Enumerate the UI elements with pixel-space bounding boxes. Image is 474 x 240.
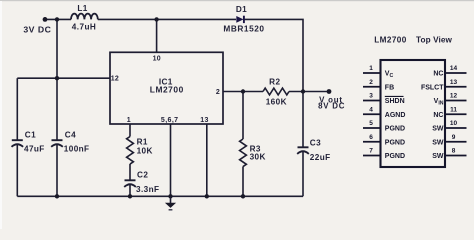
svg-text:R2: R2	[269, 78, 280, 87]
wire: R3 bottom to ground rail	[242, 167, 244, 197]
wire: R3 top from output node	[242, 92, 244, 140]
svg-text:3V DC: 3V DC	[23, 24, 51, 34]
svg-text:SW: SW	[432, 139, 444, 146]
capacitor C2 plates	[124, 180, 136, 187]
wire: input to inductor	[45, 18, 71, 20]
diode D1	[236, 16, 244, 23]
wire: C4 bottom to ground rail	[56, 145, 58, 196]
svg-text:12: 12	[450, 93, 458, 100]
wire: left rail down to C1	[16, 78, 18, 140]
wire: pins 5,6,7 to ground rail	[170, 124, 172, 196]
pin 14 stub	[445, 72, 467, 74]
svg-text:12: 12	[111, 76, 119, 83]
svg-text:3.3nF: 3.3nF	[136, 185, 159, 194]
pinout IC body	[381, 60, 446, 167]
svg-text:7: 7	[369, 148, 373, 155]
ground	[165, 196, 176, 210]
svg-text:NC: NC	[433, 112, 443, 119]
wire: C3 bottom to ground rail	[302, 152, 304, 196]
node: pin12 junction	[55, 76, 59, 80]
wire: pin 13 to ground rail	[206, 124, 208, 196]
wire: pin 10 vertical	[156, 19, 158, 52]
wire: C1 bottom to ground rail	[16, 145, 18, 196]
scan top border	[0, 0, 474, 1]
svg-text:13: 13	[450, 79, 458, 86]
resistor R2	[263, 88, 289, 95]
node: R3 top junction	[241, 89, 245, 93]
wire: R1 to C2	[129, 164, 131, 180]
svg-text:10: 10	[450, 120, 458, 127]
wire: inductor to diode	[98, 18, 236, 20]
wire: ground rail	[17, 195, 303, 197]
capacitor C4 plates	[51, 140, 63, 147]
node: rail junction R3	[241, 194, 245, 198]
node: pin10 junction	[154, 17, 158, 21]
svg-text:47uF: 47uF	[24, 144, 45, 153]
svg-text:R1: R1	[137, 138, 148, 147]
wire: C2 to ground rail	[129, 185, 131, 196]
capacitor C1 plates	[12, 140, 24, 147]
svg-text:11: 11	[450, 106, 457, 113]
resistor R1	[127, 137, 134, 165]
node: rail junction R1/C2	[128, 194, 132, 198]
svg-text:LM2700: LM2700	[150, 85, 184, 95]
svg-text:L1: L1	[77, 4, 87, 13]
pin 1 stub	[363, 72, 381, 74]
svg-text:10K: 10K	[137, 147, 153, 156]
svg-text:C1: C1	[25, 131, 36, 140]
svg-text:FB: FB	[385, 84, 394, 91]
inductor L1	[71, 14, 98, 20]
pin 9 stub	[445, 141, 467, 143]
pin 11 stub	[445, 113, 467, 115]
svg-text:2: 2	[369, 79, 373, 86]
svg-text:MBR1520: MBR1520	[223, 23, 264, 33]
wire: diode to top-right corner, down to output node	[245, 19, 304, 91]
svg-text:SW: SW	[432, 126, 444, 133]
wire: pin 1 to R1	[129, 124, 131, 137]
svg-text:PGND: PGND	[385, 139, 405, 146]
svg-text:13: 13	[200, 117, 208, 124]
svg-text:SW: SW	[432, 153, 444, 160]
wire: pin 2 to R2	[223, 91, 263, 93]
svg-text:5,6,7: 5,6,7	[161, 117, 179, 124]
svg-text:22uF: 22uF	[310, 153, 331, 162]
svg-text:4: 4	[369, 106, 373, 113]
svg-text:PGND: PGND	[385, 126, 405, 133]
svg-text:C2: C2	[137, 170, 148, 179]
svg-text:8: 8	[452, 148, 456, 155]
wire: input junction vertical down to C4	[56, 19, 58, 140]
svg-text:100nF: 100nF	[64, 144, 90, 153]
pin 2 stub	[363, 86, 381, 88]
pin 4 stub	[363, 113, 381, 115]
node: rail junction C4	[55, 194, 59, 198]
wire: pin 12 to left rail	[17, 77, 110, 79]
IC1 box	[110, 52, 223, 124]
wire: output node down to C3	[302, 92, 304, 148]
scan left light edge	[0, 1, 2, 229]
pin 8 stub	[445, 155, 467, 157]
svg-text:FSLCT: FSLCT	[421, 84, 444, 91]
node: rail junction pin 13	[205, 194, 209, 198]
node: output junction	[301, 89, 305, 93]
svg-text:5: 5	[369, 120, 373, 127]
resistor R3	[240, 139, 247, 167]
svg-text:PGND: PGND	[385, 153, 405, 160]
svg-text:Top View: Top View	[416, 36, 453, 45]
svg-text:D1: D1	[236, 5, 247, 14]
node: rail junction pins 5,6,7	[168, 194, 172, 198]
pin 3 stub	[363, 100, 381, 102]
pin 5 stub	[363, 127, 381, 129]
node: output terminal dot	[327, 89, 332, 94]
svg-text:9: 9	[452, 134, 456, 141]
svg-text:8V DC: 8V DC	[318, 101, 345, 110]
svg-text:C3: C3	[310, 139, 321, 148]
svg-text:4.7uH: 4.7uH	[72, 22, 97, 31]
pin 6 stub	[363, 141, 381, 143]
svg-text:2: 2	[216, 89, 220, 96]
svg-text:3: 3	[369, 93, 373, 100]
pinout label SHDN overline	[385, 95, 404, 97]
pin 12 stub	[445, 100, 467, 102]
svg-text:SHDN: SHDN	[385, 98, 405, 105]
svg-text:LM2700: LM2700	[374, 36, 406, 45]
node: input junction	[55, 17, 59, 21]
pin 7 stub	[363, 155, 381, 157]
node: input terminal dot	[43, 17, 48, 22]
pin 13 stub	[445, 86, 467, 88]
svg-text:1: 1	[127, 117, 131, 124]
svg-text:NC: NC	[433, 71, 443, 78]
svg-text:10: 10	[153, 56, 161, 63]
pin 10 stub	[445, 127, 467, 129]
svg-text:1: 1	[369, 65, 373, 72]
svg-text:30K: 30K	[250, 153, 266, 162]
svg-text:AGND: AGND	[385, 112, 406, 119]
svg-text:6: 6	[369, 134, 373, 141]
svg-text:C4: C4	[65, 131, 76, 140]
svg-text:14: 14	[450, 65, 458, 72]
capacitor C3 plates	[297, 147, 309, 154]
wire: R2 to output terminal	[289, 91, 329, 93]
svg-text:160K: 160K	[266, 98, 287, 107]
